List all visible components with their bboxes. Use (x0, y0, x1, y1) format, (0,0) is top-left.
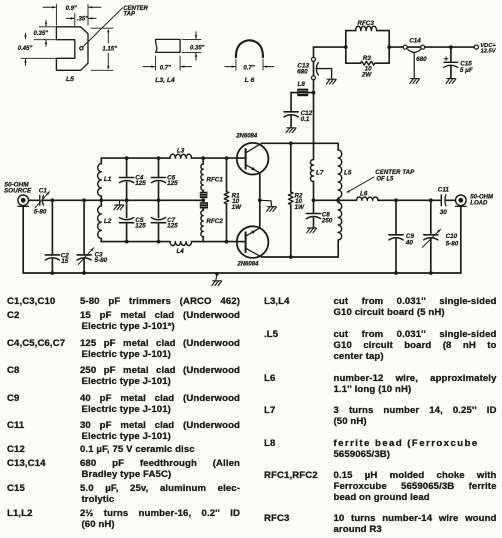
node: C7 bottom (157, 240, 161, 244)
label C9 40 (405, 233, 415, 247)
connector J1 50-ohm source (18, 195, 29, 206)
label L3 (177, 147, 185, 154)
svg-text:1.15": 1.15" (102, 47, 117, 53)
choke RFC2 with ferrite bead (200, 202, 208, 241)
svg-text:5-80: 5-80 (446, 240, 459, 247)
svg-text:RFC1: RFC1 (206, 176, 223, 183)
wire: Q1 emitter drop (259, 173, 261, 200)
choke RFC1 with ferrite bead (200, 158, 208, 198)
node: C3 ground (82, 271, 86, 275)
ground (middle rail) (114, 200, 124, 209)
resistor R1 (224, 158, 229, 242)
label C13 680 (297, 62, 309, 75)
capacitor C4 125 (120, 158, 134, 200)
node: C9 tap (394, 198, 398, 202)
ground (emitters) (260, 200, 277, 211)
label 2N6084 (Q1) (235, 133, 258, 139)
svg-text:0.7": 0.7" (243, 65, 254, 71)
label CENTER TAP (123, 6, 148, 18)
dimension 0.7 inch (L6 width) (225, 60, 274, 72)
svg-text:5-80: 5-80 (95, 257, 108, 264)
svg-text:680: 680 (297, 68, 308, 75)
svg-text:LOAD: LOAD (470, 201, 488, 207)
label C11 30 (438, 187, 450, 217)
inductor L3 (170, 154, 192, 158)
inductor L5 output line (lower half) (338, 200, 342, 257)
wire: C14 to VDC terminal (425, 46, 475, 48)
wire: top collector rail (262, 142, 339, 144)
label 2N6084 (Q2) (236, 262, 259, 268)
capacitor C3 5-80 trimmer (77, 200, 94, 273)
svg-text:125: 125 (135, 223, 146, 230)
node: L5 center tap (336, 198, 340, 202)
svg-text:R3: R3 (363, 55, 372, 62)
svg-text:15: 15 (61, 258, 69, 265)
svg-text:L1: L1 (104, 176, 112, 183)
node: R2 top (289, 141, 293, 145)
label C5 125 (135, 217, 146, 230)
label CENTER TAP OF L5 with leader (346, 170, 415, 193)
capacitor C7 125 (151, 200, 165, 241)
svg-text:RFC2: RFC2 (206, 218, 223, 225)
inductor RFC3 (top branch) (346, 26, 389, 30)
node: bead junction / middle rail end (201, 198, 205, 202)
svg-text:5-80: 5-80 (34, 209, 47, 216)
label R2 10 1W (295, 192, 306, 211)
wire: bottom base rail (101, 241, 245, 243)
inductor L4 (170, 242, 192, 246)
svg-text:L6: L6 (360, 191, 368, 198)
svg-text:L8: L8 (298, 81, 306, 88)
wire: L8 to C12 (291, 93, 297, 112)
node: C15 junction (449, 45, 453, 49)
label L7 (316, 169, 324, 176)
svg-text:C1: C1 (39, 187, 48, 194)
node: C4/C5 middle (125, 198, 129, 202)
node: ground-rail tap (215, 272, 219, 276)
node: L7/C8/center-tap junction (312, 198, 316, 202)
wire: L6 to C11 (378, 199, 441, 201)
svg-text:L5: L5 (344, 169, 352, 176)
node: RFC3/R3 right junction (387, 45, 391, 49)
label C8 250 (321, 211, 333, 224)
label VDC+ 12.5V (480, 43, 497, 55)
label C14 680 (409, 37, 427, 63)
svg-text:1W: 1W (295, 204, 306, 211)
capacitor C9 40 (389, 200, 403, 273)
label L6 (schematic) (360, 191, 368, 198)
capacitor C8 250 (306, 200, 320, 227)
inductor L6 (schematic) (357, 197, 379, 200)
svg-text:2W: 2W (361, 72, 373, 79)
wire: source shield drop (22, 206, 24, 273)
label RFC2 (206, 218, 223, 225)
node: C6/C7 middle (157, 198, 161, 202)
node: C6 top (157, 156, 161, 160)
label L6 (drawing) (245, 77, 255, 84)
svg-text:OF L5: OF L5 (376, 176, 394, 182)
label C3 5-80 (95, 251, 108, 264)
node: R1 top (225, 156, 229, 160)
svg-text:2N6084: 2N6084 (236, 262, 259, 268)
label R3 10 2W (361, 55, 373, 78)
svg-text:30: 30 (440, 209, 448, 216)
wire: middle rail (input feed) (101, 199, 203, 201)
label L3, L4 (drawing) (155, 77, 175, 84)
label RFC3 (357, 20, 374, 27)
resistor R2 (289, 143, 294, 257)
node: C9 ground (394, 271, 398, 275)
capacitor C12 0.1 disc (284, 112, 298, 127)
ground (C15) (446, 79, 456, 84)
node: RFC1 top (201, 156, 205, 160)
capacitor C5 125 (120, 200, 134, 241)
dimension 0.9 inch (L5 overall width) (43, 5, 101, 26)
svg-text:12.5V: 12.5V (481, 49, 497, 55)
capacitor C6 125 (151, 158, 165, 200)
capacitor C13 feedthrough (vertical) (312, 57, 332, 79)
svg-text:L7: L7 (316, 169, 324, 176)
wire: source to C1 (29, 199, 39, 201)
svg-text:SOURCE: SOURCE (4, 187, 32, 194)
label 50-OHM SOURCE (4, 181, 32, 194)
svg-text:.35": .35" (77, 16, 88, 22)
wire: RFC3 box to C14 (389, 46, 403, 48)
node: C10 tap (429, 198, 433, 202)
transistor Q2 2N6084 (bottom) (237, 226, 269, 258)
svg-text:125: 125 (167, 223, 178, 230)
capacitor C10 5-80 trimmer (422, 200, 440, 273)
label 50-OHM LOAD (470, 195, 494, 207)
connector J2 50-ohm load (456, 195, 467, 206)
svg-text:L5: L5 (66, 76, 74, 83)
label C10 5-80 (446, 233, 459, 247)
svg-text:125: 125 (167, 180, 178, 187)
svg-text:125: 125 (135, 180, 146, 187)
ground (C12) (286, 128, 296, 133)
node: L8 branch junction (312, 91, 316, 95)
node: C2 tap (51, 198, 55, 202)
svg-text:L3: L3 (177, 147, 185, 154)
node: C2 ground (51, 271, 55, 275)
label L2 (104, 218, 112, 225)
wire: C1 to pi-network input rail (44, 199, 102, 201)
mechanical drawing: hairpin inductor L5 outline (56, 27, 88, 71)
svg-text:C10: C10 (446, 233, 458, 240)
label C6 125 (167, 175, 178, 188)
label C12 0.1 (301, 110, 313, 123)
svg-text:0.1: 0.1 (301, 116, 310, 123)
leader line from CENTER TAP label to L5 hole (83, 8, 123, 47)
ground (bottom rail) (212, 274, 222, 286)
svg-text:0.9": 0.9" (66, 6, 77, 12)
inductor L2 (98, 200, 102, 241)
ground (C14 shield) (410, 79, 420, 84)
label C15 5 uF (460, 61, 473, 74)
node: R2 bottom (289, 255, 293, 259)
svg-text:40: 40 (405, 240, 414, 247)
inductor L5 output line (upper half) (338, 143, 342, 200)
label L5 (schematic) (344, 169, 352, 176)
node: R1 bottom (225, 240, 229, 244)
svg-text:0.35": 0.35" (190, 46, 205, 52)
wire: Q2 emitter rise (259, 200, 261, 228)
svg-text:L3, L4: L3, L4 (155, 77, 175, 84)
node: C4 top (125, 156, 129, 160)
capacitor C11 30 (series) (441, 195, 455, 206)
label C7 125 (167, 217, 178, 230)
dimension 0.7 inch (L3/L4 length) (143, 56, 192, 71)
L5 center-tap hole (80, 47, 83, 50)
wire: load shield drop (460, 206, 462, 273)
wire: supply node from C13 to RFC3 box (314, 47, 346, 57)
wire: bottom collector rail (262, 256, 339, 258)
wire: supply drop to L7 (crosses collector rail) (313, 93, 315, 160)
ground (C8) (307, 228, 317, 233)
dimension .35 inch (L5 right leg width) (67, 14, 97, 26)
node: C10 ground (429, 271, 433, 275)
svg-text:L2: L2 (104, 218, 112, 225)
svg-text:C11: C11 (438, 187, 450, 194)
dimension 0.45 inch (L5 slot height) (18, 33, 56, 65)
dimension 1.15 inch (L5 overall height) (91, 28, 117, 70)
ferrite bead L8 (297, 89, 313, 97)
wire: center tap to L6 (314, 199, 357, 201)
wire: RFC3 parallel box sides (346, 31, 389, 64)
wire: bottom ground rail (23, 272, 461, 274)
capacitor C14 feedthrough (403, 45, 425, 77)
svg-text:250: 250 (321, 218, 333, 225)
node: emitter junction (258, 198, 262, 202)
label RFC1 (206, 176, 223, 183)
label L8 (298, 81, 306, 88)
svg-text:0.7": 0.7" (160, 65, 171, 71)
svg-text:CENTER TAP: CENTER TAP (375, 170, 415, 176)
transistor Q1 2N6084 (top) (237, 143, 269, 175)
mechanical drawing: strip inductor L3/L4 outline (156, 39, 181, 52)
wire: top base rail (101, 157, 245, 159)
resistor R3 (bottom branch) (346, 61, 389, 65)
svg-text:L4: L4 (176, 248, 184, 255)
svg-text:5 µF: 5 µF (460, 67, 473, 74)
svg-text:L 6: L 6 (245, 77, 255, 84)
node: C3 tap (82, 198, 86, 202)
mechanical drawing: wire loop inductor L6 (236, 40, 263, 57)
svg-text:1W: 1W (232, 204, 243, 211)
svg-text:C14: C14 (409, 37, 421, 44)
capacitor C15 electrolytic with + polarity (444, 47, 458, 78)
label C2 15 (61, 253, 70, 265)
dimension 0.35 inch (L3/L4 width) (182, 32, 205, 60)
svg-text:50-OHM: 50-OHM (470, 195, 494, 201)
node: C5 bottom (125, 240, 129, 244)
svg-text:2N6084: 2N6084 (235, 133, 258, 139)
label R1 10 1W (232, 193, 243, 211)
svg-text:TAP: TAP (123, 12, 136, 18)
svg-text:0.45": 0.45" (18, 46, 33, 52)
capacitor C2 15 (45, 200, 59, 273)
label C4 125 (135, 175, 146, 188)
terminal VDC+ 12.5V (474, 45, 478, 49)
svg-text:0.35": 0.35" (34, 31, 49, 37)
svg-text:680: 680 (416, 56, 427, 63)
node: input rail to L1/L2 midpoint (99, 198, 103, 202)
inductor L1 (98, 158, 102, 200)
label C1 5-80 (34, 187, 48, 215)
label L4 (176, 248, 184, 255)
svg-text:RFC3: RFC3 (357, 20, 374, 27)
dimension 0.35 inch (L5 upper arm) (34, 20, 56, 46)
label L5 (drawing) (66, 76, 74, 83)
wire: C13 to L8 junction (313, 80, 315, 93)
capacitor C1 5-80 trimmer (35, 192, 49, 208)
choke L7 (310, 160, 313, 201)
label L1 (104, 176, 112, 183)
ground (C13 shield) (326, 79, 336, 84)
node: RFC3/R3 left junction (344, 45, 348, 49)
